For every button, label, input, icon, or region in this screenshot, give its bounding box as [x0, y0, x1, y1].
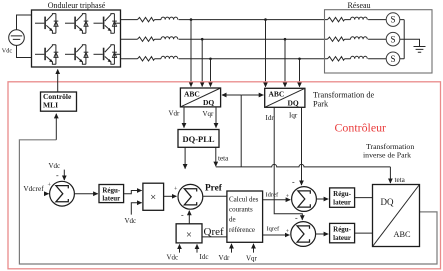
wire tap C1 down to ABC-DQ-1 — [210, 59, 212, 87]
grid box Réseau — [325, 10, 433, 73]
svg-text:Contrôleur: Contrôleur — [335, 121, 387, 135]
inverter box (onduleur) — [32, 10, 121, 67]
block DQ-ABC inverse Park — [373, 185, 420, 247]
inductor Lgb — [351, 37, 368, 40]
svg-text:Calcul des: Calcul des — [229, 195, 259, 203]
svg-text:Régu-: Régu- — [102, 186, 121, 194]
wire tap A2 down to Park block — [265, 20, 267, 87]
svg-text:Contrôle: Contrôle — [43, 92, 72, 101]
svg-text:lateur: lateur — [102, 195, 120, 203]
svg-text:courants: courants — [229, 206, 253, 214]
block Régulateur 1 — [330, 188, 355, 207]
svg-text:-: - — [181, 211, 184, 220]
wire phase C — [121, 58, 328, 60]
transistor Q4 — [35, 45, 58, 65]
block ABC-DQ current transform U2 (Park) — [265, 88, 305, 107]
svg-text:Transformation de: Transformation de — [313, 91, 375, 100]
node tap A2 — [264, 18, 267, 21]
resistor Rb — [138, 37, 155, 41]
svg-text:×: × — [150, 192, 156, 203]
wire regulator2 to DQ-ABC — [355, 232, 373, 234]
node tap C2 — [298, 58, 301, 61]
block Calcul des courants de référence — [227, 191, 263, 242]
transistor Q5 — [65, 45, 88, 65]
wire grid row3 — [345, 58, 405, 60]
svg-text:Vdc: Vdc — [2, 47, 13, 54]
svg-text:+: + — [286, 194, 290, 200]
multiplier M2 (Qref) — [176, 224, 202, 243]
svg-text:référence: référence — [229, 226, 255, 234]
voltage source Vdc — [9, 30, 25, 46]
block Régulateur 0 — [99, 185, 124, 203]
wire bus to ground — [404, 39, 419, 46]
wire MLI input — [55, 114, 57, 140]
svg-text:lateur: lateur — [333, 199, 351, 207]
svg-text:ABC: ABC — [184, 89, 200, 98]
svg-text:Idr: Idr — [266, 114, 275, 122]
wire source bottom to inverter — [17, 45, 32, 57]
wire Iqref to sum2 — [263, 234, 290, 236]
wire multiplier to sum Pref — [164, 195, 177, 197]
summing junction S-Pref — [178, 184, 203, 209]
svg-text:-: - — [56, 171, 59, 180]
svg-text:MLI: MLI — [43, 101, 58, 110]
wire sum0 to regulator — [74, 193, 97, 195]
wire row1 trailing dash — [115, 22, 121, 24]
node tap C1 — [209, 58, 212, 61]
controller red frame — [8, 82, 441, 269]
svg-text:inverse de Park: inverse de Park — [363, 151, 411, 160]
svg-text:Iqref: Iqref — [267, 225, 280, 232]
svg-text:DQ-PLL: DQ-PLL — [182, 134, 214, 144]
wire Pref to Calcul block — [203, 195, 227, 197]
svg-text:Vdc: Vdc — [167, 254, 179, 262]
wire MLI to inverter — [57, 70, 59, 92]
svg-text:lateur: lateur — [333, 234, 351, 242]
svg-text:-: - — [292, 177, 295, 186]
svg-text:Régu-: Régu- — [333, 226, 352, 234]
inductor Lb — [161, 37, 178, 40]
source Sc — [386, 52, 400, 66]
node tap B1 — [201, 38, 204, 41]
wire Idc into M2 — [196, 245, 198, 253]
summing junction S0 (Vdc loop) — [50, 181, 75, 206]
svg-text:DQ: DQ — [203, 98, 214, 107]
wire Vdc into sum top — [63, 170, 65, 180]
block ABC-DQ voltage transform U1 — [180, 88, 220, 107]
wire teta branch up — [240, 95, 242, 167]
source Sa — [386, 13, 400, 27]
wire Vqr into Calcul — [253, 244, 255, 253]
wire teta down to DQ-ABC — [389, 167, 391, 183]
block Contrôle MLI — [41, 92, 77, 111]
svg-text:DQ: DQ — [288, 99, 299, 108]
wire sum2 to regulator2 — [316, 233, 329, 235]
wire regulator1 to DQ-ABC — [355, 197, 373, 199]
transistor Q6 — [94, 45, 117, 65]
svg-text:DQ: DQ — [381, 197, 394, 207]
inductor Lc — [161, 56, 178, 59]
wire teta net horizontal with hops — [216, 164, 391, 166]
transistor Q3 — [94, 14, 117, 34]
wire Idref to sum1 — [263, 199, 291, 201]
svg-text:ABC: ABC — [269, 90, 285, 99]
resistor Rga — [328, 17, 345, 21]
wire tap A1 down to ABC-DQ-1 — [190, 20, 192, 87]
svg-text:Vdc: Vdc — [125, 217, 137, 225]
svg-text:teta: teta — [395, 176, 406, 184]
svg-text:Régu-: Régu- — [333, 190, 352, 198]
multiplier M1 — [143, 183, 164, 210]
wire regulator0 to multiplier — [124, 191, 142, 194]
block DQ-PLL — [178, 130, 219, 148]
wire grid row2 — [345, 38, 405, 40]
svg-text:Vqr: Vqr — [203, 110, 215, 118]
wire Vqr to PLL — [215, 107, 217, 128]
inductor La — [161, 17, 178, 20]
wire Vdr to PLL — [183, 107, 185, 128]
inductor Lga — [351, 17, 368, 20]
svg-text:Vqr: Vqr — [246, 254, 258, 262]
svg-text:Iqr: Iqr — [289, 112, 298, 120]
svg-text:Park: Park — [313, 99, 329, 108]
block Régulateur 2 — [330, 223, 355, 242]
wire Qref to Calcul block — [202, 236, 227, 238]
wire PLL left output arrow — [184, 147, 186, 168]
wire Vdr into Calcul — [231, 244, 233, 253]
summing junction S1 — [292, 187, 317, 212]
svg-text:Vdc: Vdc — [49, 162, 61, 170]
wire tap C2 down to Park block — [299, 59, 301, 87]
resistor Rc — [138, 57, 155, 61]
svg-text:+: + — [286, 229, 290, 235]
node tap B2 — [284, 38, 287, 41]
svg-text:Transformation: Transformation — [366, 142, 414, 151]
svg-text:Onduleur triphasé: Onduleur triphasé — [48, 1, 106, 10]
wire neutral bus — [403, 20, 405, 59]
svg-text:Vdr: Vdr — [169, 110, 181, 118]
svg-text:+: + — [174, 187, 178, 193]
svg-text:Vdcref: Vdcref — [23, 184, 44, 193]
wire Vdcref into sum Vdc — [45, 193, 49, 195]
wire grid row1 — [345, 19, 405, 21]
wire tap B1 down to ABC-DQ-1 — [201, 39, 203, 86]
transistor Q1 — [35, 14, 58, 34]
node tap A1 — [190, 18, 193, 21]
wire phase B — [121, 38, 328, 40]
wire sum1 to regulator1 — [316, 198, 328, 200]
wire Qref multiplier up into sum Pref — [188, 211, 190, 224]
resistor Rgc — [328, 57, 345, 61]
wire teta to Park transform — [241, 94, 263, 96]
wire row2 trailing dash — [115, 53, 121, 55]
wire Idr down, right, into sum2 — [274, 107, 302, 219]
wire source top to inverter — [17, 15, 32, 30]
inductor Lgc — [351, 56, 368, 59]
resistor Ra — [138, 17, 155, 21]
transistor Q2 — [65, 14, 88, 34]
svg-text:-: - — [295, 213, 298, 222]
wire Iqr down into sum1 — [301, 107, 303, 185]
svg-text:Réseau: Réseau — [347, 1, 370, 10]
svg-text:teta: teta — [218, 154, 229, 162]
source Sb — [386, 32, 400, 46]
svg-text:Idc: Idc — [200, 253, 209, 261]
wire tap B2 down to Park block — [284, 39, 286, 87]
svg-text:Pref: Pref — [205, 184, 223, 194]
wire teta to both transforms (double arrow) — [222, 94, 241, 96]
wire Vdc up into multiplier — [131, 203, 141, 215]
summing junction S2 — [291, 222, 316, 247]
ground — [414, 47, 426, 53]
feedback wire DQ-ABC output to MLI — [19, 140, 437, 264]
svg-text:Vdr: Vdr — [219, 254, 231, 262]
svg-text:ABC: ABC — [394, 230, 412, 239]
wire PLL teta output arrow — [215, 147, 217, 166]
wire phase A — [121, 19, 328, 21]
svg-text:Idref: Idref — [266, 191, 279, 198]
svg-text:×: × — [186, 230, 192, 241]
svg-text:Qref: Qref — [204, 226, 224, 238]
wire Vdc into M2 — [179, 245, 181, 253]
svg-text:de: de — [229, 216, 236, 224]
resistor Rgb — [328, 37, 345, 41]
